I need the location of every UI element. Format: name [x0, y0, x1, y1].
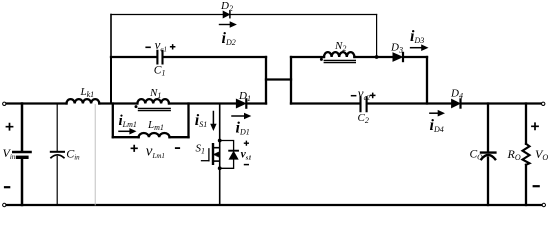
node junction D2/N2: [375, 55, 379, 59]
wire D2 top right: [230, 14, 376, 16]
label vc1: [145, 46, 150, 48]
label Vin minus: [4, 186, 10, 188]
arrow iD3: [411, 47, 422, 49]
input terminal bottom: [3, 203, 6, 206]
diode D4: [452, 99, 460, 107]
wire rail D1 to C1 corner: [247, 102, 266, 104]
label vs1 plus: [244, 141, 249, 146]
wire C2 rail left: [291, 102, 360, 104]
wire N2 top left: [291, 56, 324, 58]
output terminal top: [542, 102, 545, 105]
inductor Lm1: [139, 133, 170, 137]
wire C2 rail right: [368, 102, 452, 104]
label vLm1 plus: [131, 145, 138, 152]
wire D2 vertical right: [376, 15, 378, 58]
arrow iD1: [232, 115, 245, 117]
winding N1: [137, 99, 169, 103]
wire D4 to output: [461, 102, 541, 104]
arrow iD2: [220, 24, 231, 26]
wire C1 loop right vertical: [265, 57, 267, 104]
wire N2 loop left vertical: [290, 57, 292, 104]
capacitor C1: [157, 51, 162, 64]
inductor Lk1: [67, 99, 100, 103]
wire C1 loop top right: [164, 56, 267, 58]
diode D3: [393, 53, 402, 61]
transistor S1: [202, 141, 220, 169]
wire connector between loops: [266, 78, 291, 80]
label vs1 minus: [244, 164, 249, 166]
capacitor Cin: [56, 104, 58, 152]
arrow iD4: [430, 112, 438, 114]
wire D2 top left: [111, 14, 223, 16]
wire Lm1 loop left vertical: [112, 104, 114, 138]
core lines N1: [139, 108, 171, 110]
winding dot N2: [320, 58, 323, 61]
winding dot N1: [135, 105, 138, 108]
winding N2: [324, 52, 354, 57]
arrow iS1: [212, 112, 214, 125]
wire S1 source to bottom rail: [219, 168, 221, 205]
wire faint vertical artifact: [94, 105, 96, 206]
output terminal bottom: [542, 203, 545, 206]
label Vo minus: [533, 185, 540, 187]
capacitor C2: [361, 97, 367, 111]
label vc2: [351, 95, 357, 97]
battery Vin: [21, 104, 24, 151]
node S1 drain junction: [218, 139, 222, 143]
wire S1 branch top: [219, 104, 221, 141]
label Vo plus: [531, 122, 539, 130]
wire C1 loop left vertical: [110, 57, 112, 104]
resistor Ro: [525, 104, 527, 144]
wire Lm1 bottom right: [170, 136, 189, 138]
wire rail N1 to D1: [169, 102, 236, 104]
label Vin plus: [6, 123, 14, 131]
wire Lm1 loop right vertical: [187, 104, 189, 138]
wire Lm1 bottom left: [113, 136, 139, 138]
wire rail Lk1 to N1: [99, 102, 137, 104]
core lines N2: [324, 60, 355, 62]
input terminal top: [3, 102, 6, 105]
body diode S1: [220, 141, 238, 169]
label vLm1 minus: [175, 147, 180, 149]
wire N2 to D3: [354, 56, 393, 58]
wire C1 loop top left: [111, 56, 156, 58]
diode D1: [236, 99, 245, 107]
wire N2 loop right vertical: [426, 57, 428, 104]
capacitor Co: [487, 104, 489, 152]
arrow iLm1: [119, 130, 130, 132]
wire bottom rail: [7, 204, 542, 206]
wire D3 to corner: [404, 56, 427, 58]
wire top rail left: [7, 102, 67, 104]
diode D2: [223, 11, 229, 17]
node S1 source junction: [218, 166, 222, 170]
wire D2 vertical left: [110, 15, 112, 58]
